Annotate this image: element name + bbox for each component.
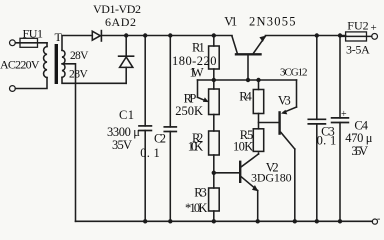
wire top rail right <box>265 35 345 37</box>
svg-text:0. 1: 0. 1 <box>317 133 337 147</box>
svg-text:C1: C1 <box>119 108 134 122</box>
wire secondary top to rail <box>62 36 92 51</box>
svg-text:-: - <box>377 214 380 225</box>
svg-text:FU2: FU2 <box>347 19 368 33</box>
transformer T secondary winding <box>62 50 65 77</box>
wire base bus y80 <box>198 79 297 81</box>
svg-text:10K: 10K <box>188 139 203 153</box>
svg-text:28V: 28V <box>70 50 89 62</box>
terminal output plus <box>372 34 378 40</box>
svg-text:6AD2: 6AD2 <box>105 15 136 29</box>
svg-text:3-5A: 3-5A <box>346 42 370 56</box>
svg-text:C2: C2 <box>154 132 166 146</box>
terminal output minus <box>372 219 377 224</box>
svg-text:0. 1: 0. 1 <box>140 146 159 160</box>
transistor V1 <box>232 36 266 80</box>
transformer T primary winding <box>44 47 47 78</box>
wire bottom input to primary <box>15 78 47 89</box>
transistor V3 <box>280 80 297 221</box>
svg-text:R1: R1 <box>192 40 205 54</box>
transistor V2 <box>240 154 258 221</box>
svg-text:+: + <box>371 22 377 34</box>
svg-text:R3: R3 <box>194 186 206 200</box>
svg-text:+: + <box>341 109 347 120</box>
svg-text:28V: 28V <box>69 68 88 80</box>
resistor R2 <box>209 131 220 188</box>
diode VD2 <box>119 36 134 84</box>
wire R2R3 node to V2 base <box>214 172 239 174</box>
svg-text:250K: 250K <box>175 104 203 118</box>
wire R4R5 node to V3 base <box>259 122 279 124</box>
wire top rail left <box>101 35 232 37</box>
diode VD1 <box>92 31 101 41</box>
svg-text:35V: 35V <box>112 138 132 152</box>
svg-text:V3: V3 <box>278 93 291 107</box>
svg-text:35V: 35V <box>351 144 368 158</box>
svg-text:R4: R4 <box>239 89 252 103</box>
potentiometer RP <box>198 80 220 131</box>
terminal input top <box>10 40 16 46</box>
resistor R4 <box>253 80 263 129</box>
capacitor C2 <box>164 36 176 222</box>
terminal input bottom <box>10 86 16 92</box>
ground rail <box>76 220 373 222</box>
svg-text:3CG12: 3CG12 <box>280 67 308 79</box>
svg-text:FU1: FU1 <box>23 26 44 40</box>
transformer core <box>55 44 58 84</box>
wire fuse to primary <box>46 43 48 47</box>
capacitor C1 <box>139 36 151 222</box>
capacitor C4 <box>332 36 349 222</box>
svg-text:AC220V: AC220V <box>0 57 40 71</box>
capacitor C3 <box>308 36 325 222</box>
wire center tap to ground rail <box>62 64 76 222</box>
svg-text:3DG180: 3DG180 <box>251 171 292 185</box>
svg-text:*10K: *10K <box>185 201 207 215</box>
wire secondary bottom to VD2 <box>62 77 126 83</box>
fuse FU2 <box>340 32 372 41</box>
svg-text:2N3055: 2N3055 <box>249 14 296 28</box>
svg-text:VD1-VD2: VD1-VD2 <box>93 2 141 16</box>
svg-text:3300 μ: 3300 μ <box>107 125 140 139</box>
resistor R5 <box>253 129 263 154</box>
svg-text:470 μ: 470 μ <box>345 131 372 145</box>
fuse FU1 <box>15 38 47 47</box>
resistor R1 <box>209 36 220 81</box>
svg-text:T: T <box>55 30 63 44</box>
svg-text:1W: 1W <box>190 66 204 80</box>
resistor R3 <box>209 188 220 221</box>
svg-text:10K: 10K <box>233 139 253 153</box>
svg-text:V1: V1 <box>224 14 237 28</box>
